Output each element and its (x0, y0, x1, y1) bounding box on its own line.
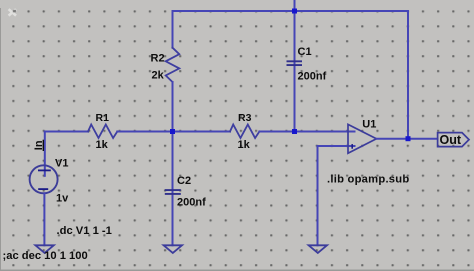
junction output node (406, 136, 411, 141)
svg-text:2k: 2k (152, 70, 165, 82)
svg-text:R1: R1 (96, 112, 110, 124)
window edge bottom (0, 270, 474, 271)
svg-text:C2: C2 (177, 175, 191, 187)
V1 plus symbol (38, 170, 51, 172)
wire opamp plus branch vertical (317, 146, 319, 245)
svg-text:V1: V1 (55, 158, 68, 170)
wire In vertical to V1 (44, 132, 46, 176)
wire opamp plus input horizontal (318, 145, 355, 147)
svg-text:200nf: 200nf (298, 71, 327, 83)
svg-text:C1: C1 (298, 46, 312, 58)
capacitor C1 plates (287, 61, 303, 65)
net label In (rotated) (33, 140, 45, 151)
svg-text:Out: Out (440, 133, 462, 147)
svg-text:200nf: 200nf (177, 197, 206, 209)
resistor R2 (166, 48, 180, 82)
wire opamp output (377, 138, 438, 140)
window edge left (0, 8, 1, 271)
ground under V1 (35, 245, 53, 253)
wire R3 to opamp minus input (259, 131, 354, 133)
svg-text:.lib opamp.sub: .lib opamp.sub (327, 173, 409, 185)
V1 minus symbol (38, 188, 48, 190)
svg-text:1k: 1k (96, 139, 109, 151)
svg-text:.dc V1 1 -1: .dc V1 1 -1 (57, 225, 112, 237)
wire top feedback (173, 10, 409, 12)
wire C1 lead (294, 0, 296, 132)
wire R2 bottom lead (172, 82, 174, 132)
wire right feedback vertical (407, 11, 409, 139)
wire In corner to R1 (45, 131, 88, 133)
capacitor C2 plates (165, 190, 181, 194)
svg-text:R2: R2 (151, 53, 165, 65)
ground under opamp plus branch (309, 245, 327, 253)
wire C2 lead (172, 132, 174, 246)
svg-text:U1: U1 (362, 119, 376, 131)
svg-text:R3: R3 (238, 112, 252, 124)
junction R1/R2/C2 node (170, 129, 175, 134)
voltage source V1 circle (30, 165, 58, 193)
wire V1 to ground (43, 193, 45, 245)
junction C1 bottom node (292, 129, 297, 134)
wire R1 to R3 (117, 131, 230, 133)
wire R2 top lead (172, 11, 174, 48)
resistor R1 (88, 125, 117, 139)
port Out pennant (438, 133, 469, 147)
svg-text:1k: 1k (238, 139, 251, 151)
resistor R3 (230, 125, 259, 139)
svg-text:1v: 1v (56, 193, 69, 205)
junction top C1 (292, 9, 297, 14)
origin marker smudge (9, 9, 16, 15)
opamp plus symbol tick (351, 144, 353, 149)
op-amp U1 triangle (348, 124, 376, 153)
ground under C2 (164, 245, 182, 253)
svg-text:;ac dec 10 1 100: ;ac dec 10 1 100 (3, 250, 88, 262)
